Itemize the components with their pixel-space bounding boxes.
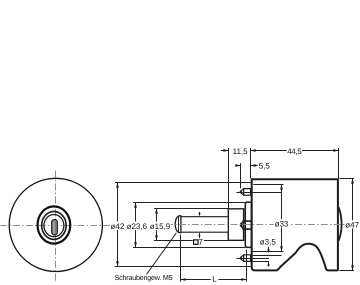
- svg-text:11,5: 11,5: [233, 147, 249, 156]
- svg-text:L: L: [212, 275, 217, 284]
- svg-text:ø15,9: ø15,9: [150, 222, 171, 231]
- svg-text:5,5: 5,5: [259, 161, 271, 170]
- svg-text:ø33: ø33: [275, 219, 289, 228]
- svg-text:44,5: 44,5: [287, 147, 302, 156]
- svg-text:ø42: ø42: [111, 222, 125, 231]
- svg-text:ø47: ø47: [345, 221, 359, 230]
- svg-text:7: 7: [198, 238, 203, 247]
- svg-text:Schraubengew. M5: Schraubengew. M5: [115, 273, 173, 282]
- svg-text:ø23,6: ø23,6: [127, 222, 148, 231]
- svg-text:ø3,5: ø3,5: [260, 238, 277, 247]
